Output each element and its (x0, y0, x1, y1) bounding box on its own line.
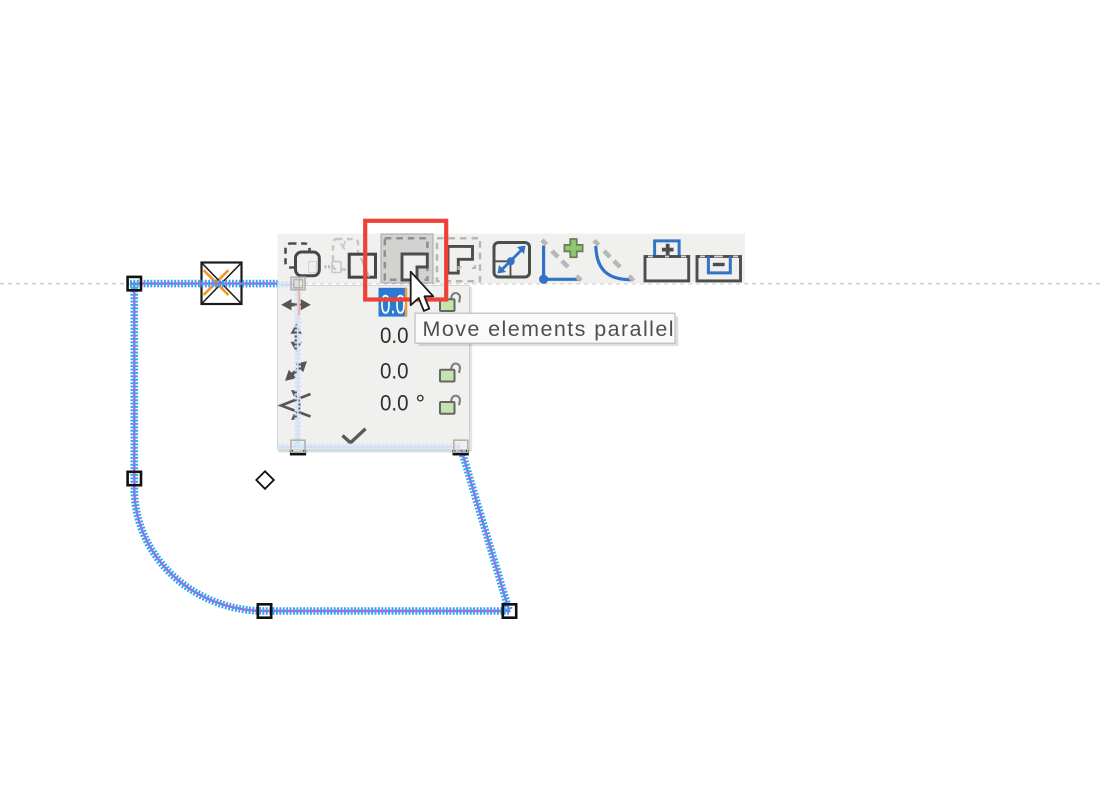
svg-text:0.0: 0.0 (380, 323, 409, 348)
svg-text:Move elements parallel: Move elements parallel (423, 317, 674, 341)
svg-text:0.0: 0.0 (380, 391, 409, 416)
svg-text:°: ° (416, 391, 426, 418)
svg-text:0.0: 0.0 (380, 359, 409, 384)
svg-text:0.0: 0.0 (381, 290, 406, 320)
